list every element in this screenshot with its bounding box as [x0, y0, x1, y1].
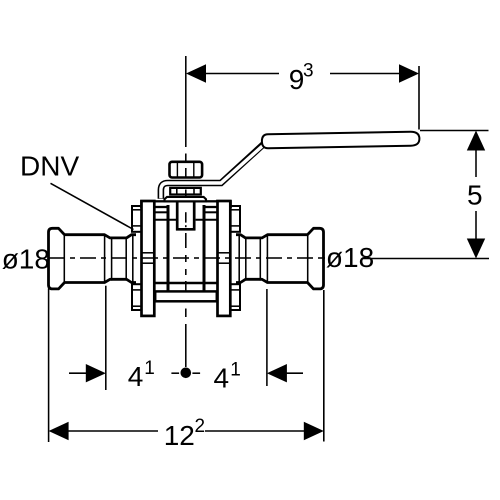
body shoulder line [155, 219, 218, 221]
extension line left (x=105.8) [105, 286, 107, 390]
right press fitting fill [236, 228, 324, 289]
gap spacer edge right [205, 211, 217, 213]
left fitting bead inner line [63, 235, 65, 282]
valve bolt top-right [230, 206, 240, 232]
right fitting neck line 2 [245, 237, 247, 281]
valve top plate [141, 201, 230, 207]
center dot [181, 368, 192, 379]
arrow right (pointing right) [304, 422, 324, 440]
svg-text:ø18: ø18 [326, 242, 374, 273]
svg-text:5: 5 [467, 180, 483, 211]
right fitting insertion mark [238, 236, 240, 282]
dimension line segments [475, 149, 477, 177]
valve bolt bottom-right [230, 284, 240, 310]
arrow left [186, 64, 206, 82]
stem hex nut [170, 162, 203, 178]
handle grip [262, 132, 420, 149]
extension line top (from handle end) [420, 130, 489, 132]
gland plate [165, 197, 207, 201]
right fitting neck line 1b [259, 237, 261, 281]
right tail + arrow pointing left [286, 372, 304, 374]
dimension line segments [205, 73, 279, 75]
arrow up [467, 131, 485, 151]
body right wall [203, 205, 206, 291]
right fitting bead inner line [307, 235, 309, 282]
body left wall [167, 205, 170, 291]
svg-text:2: 2 [195, 416, 206, 437]
svg-text:ø18: ø18 [2, 244, 50, 275]
extension line right (x=266.9) [266, 289, 268, 386]
svg-text:DNV: DNV [20, 151, 79, 182]
gap spacer edge left [155, 211, 167, 213]
dimension 12^2 bottom [49, 289, 324, 452]
DNV leader line [51, 183, 134, 229]
bottom cap bar [155, 291, 217, 301]
left tail + arrow pointing right [69, 372, 88, 374]
svg-text:1: 1 [144, 358, 155, 379]
svg-text:3: 3 [303, 61, 314, 82]
arrow right [399, 64, 419, 82]
left interior block (erases plate bottom edge) [169, 203, 177, 219]
left fitting insertion mark [132, 236, 134, 282]
center stubs [171, 372, 179, 374]
extension line right (x=419) [418, 66, 420, 130]
extension line right (x=323.8) [323, 290, 325, 442]
svg-text:4: 4 [128, 361, 144, 392]
arrow left (pointing left) [49, 422, 69, 440]
handle lever rod (double line) [161, 144, 264, 199]
left flange bore lines [142, 252, 155, 254]
left fitting neck line 2 [125, 237, 127, 281]
stem column [176, 202, 196, 231]
svg-text:9: 9 [289, 64, 305, 95]
extension line bottom (pipe axis) [362, 258, 489, 260]
dimension 5 right [362, 131, 489, 259]
svg-text:1: 1 [230, 360, 241, 381]
valve bolt bottom-left [132, 284, 142, 310]
stem washer [170, 188, 201, 195]
svg-text:4: 4 [214, 363, 230, 394]
horizontal centerline (dash-dot) [49, 257, 325, 259]
right interior block (erases plate bottom edge) [195, 203, 202, 219]
arrow down [467, 239, 485, 259]
left press fitting outline [49, 228, 137, 289]
left press fitting fill [49, 228, 137, 289]
extension line left (x=48.6) [48, 289, 50, 443]
vertical centerline (dash-dot) + extension to top dimension [185, 56, 187, 367]
valve bolt top-left [132, 206, 142, 232]
dimension 9^3 top [186, 61, 419, 130]
right fitting neck line 1 [266, 236, 268, 282]
right flange [218, 201, 231, 316]
svg-text:12: 12 [164, 420, 195, 451]
dimension 4^1 + 4^1 [69, 286, 303, 394]
right flange bore lines [218, 252, 231, 254]
left fitting neck line 1 [104, 236, 106, 282]
left fitting neck line 1b [111, 237, 113, 281]
left flange [142, 201, 155, 316]
ball bottom line [155, 282, 218, 284]
right press fitting outline [236, 228, 324, 289]
dimension line segments [68, 430, 158, 432]
